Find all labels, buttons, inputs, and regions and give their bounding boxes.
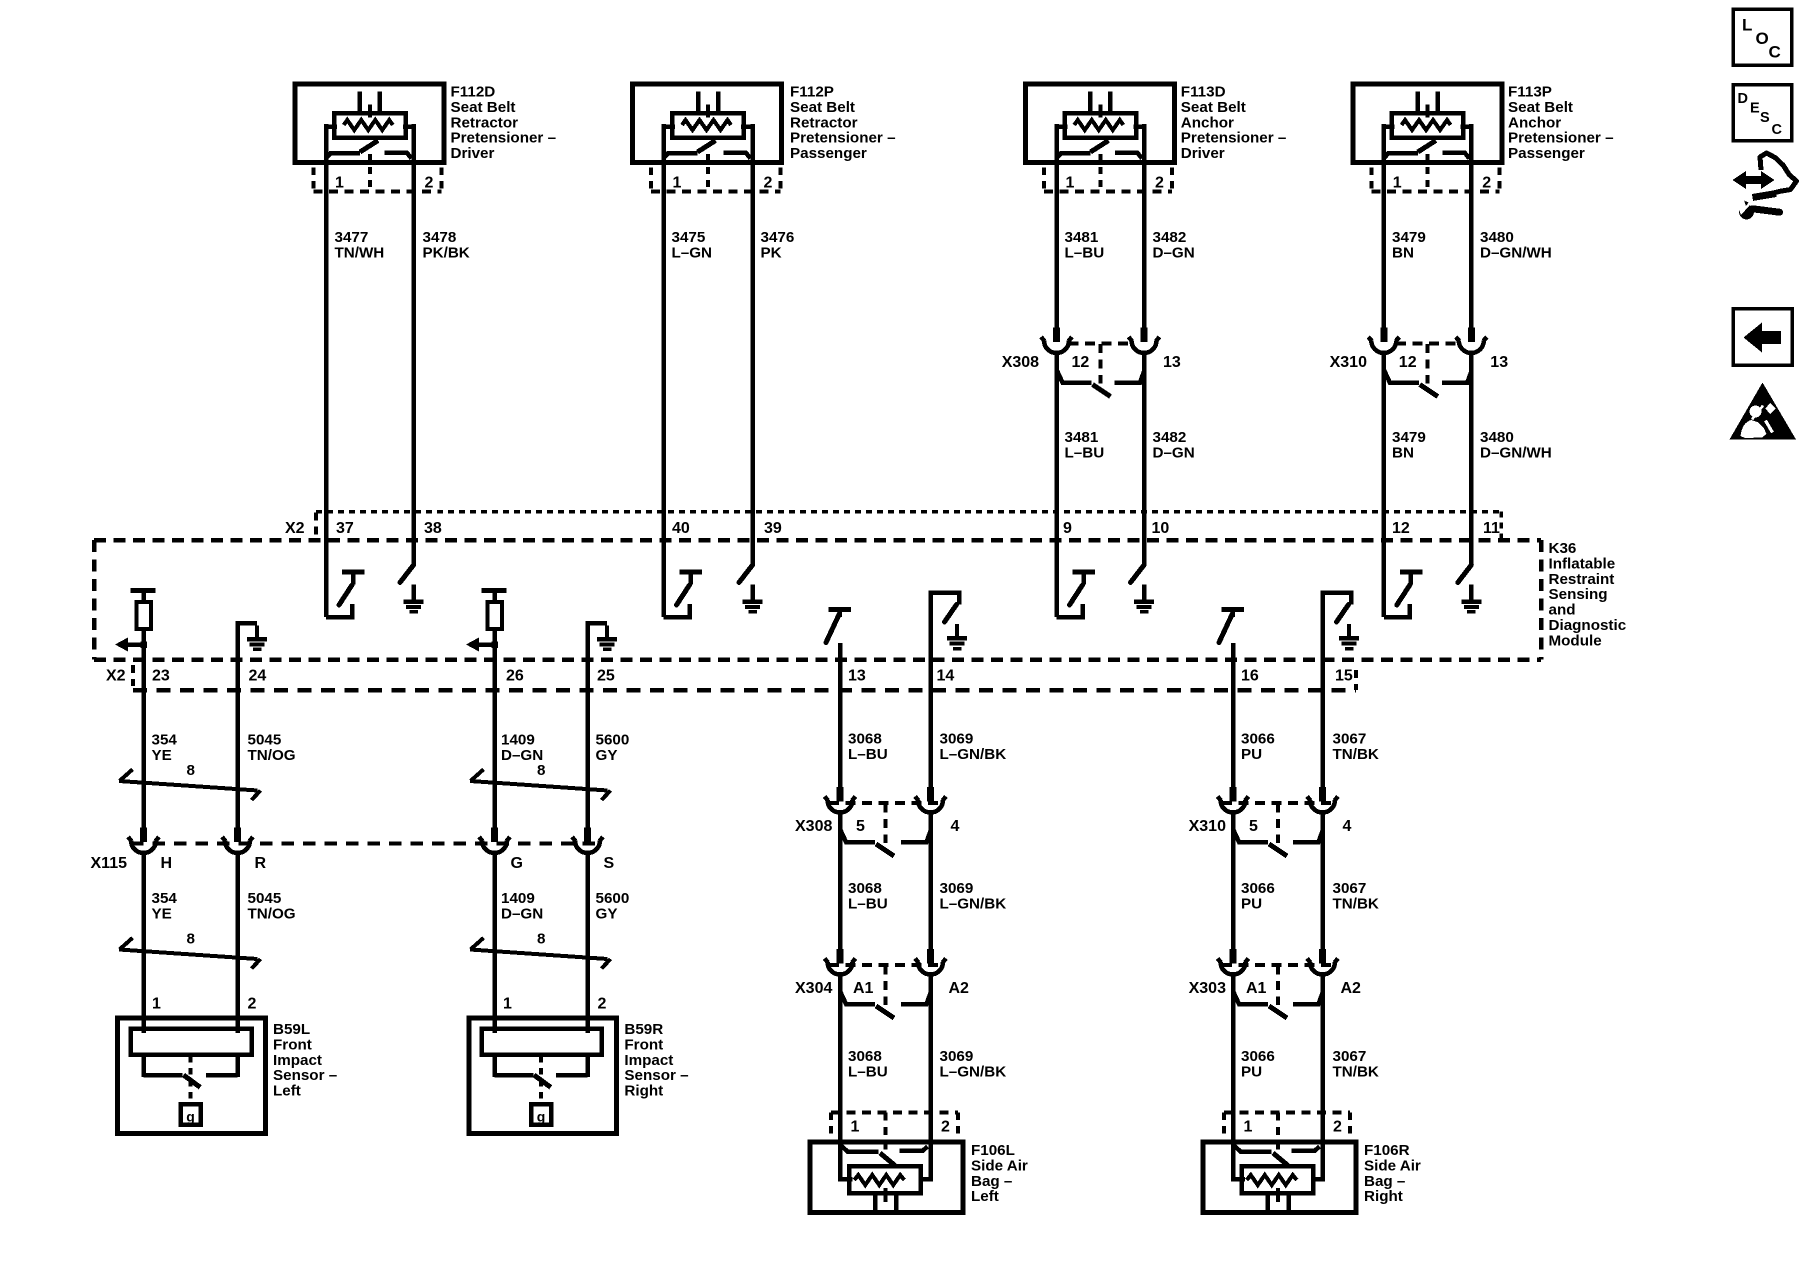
K36 driver pin 37 bbox=[326, 572, 365, 617]
wire 3482 segment F113D-2 to X308-13 bbox=[1142, 163, 1147, 330]
K36 internal ground pin 25 bbox=[588, 623, 618, 659]
svg-text:1: 1 bbox=[335, 175, 344, 192]
wire 3476 label bbox=[761, 229, 795, 261]
pretensioner F113D bbox=[1026, 84, 1175, 193]
F112D pin box bbox=[314, 168, 442, 192]
svg-text:L–BU: L–BU bbox=[848, 746, 888, 763]
svg-text:1: 1 bbox=[152, 996, 161, 1013]
svg-text:2: 2 bbox=[1482, 175, 1491, 192]
svg-text:2: 2 bbox=[248, 996, 257, 1013]
twisted pair marker lower B bbox=[470, 938, 611, 969]
pretensioner F113P bbox=[1353, 84, 1502, 193]
svg-text:10: 10 bbox=[1152, 520, 1170, 537]
wire 354 label lower bbox=[152, 890, 178, 922]
wire 3478 label bbox=[423, 229, 470, 261]
wire 3478 segment F112D-2 to K36-38 bbox=[411, 163, 416, 515]
svg-text:BN: BN bbox=[1392, 444, 1414, 461]
svg-text:25: 25 bbox=[597, 668, 615, 685]
svg-text:39: 39 bbox=[764, 520, 782, 537]
svg-text:A1: A1 bbox=[1246, 980, 1267, 997]
wire 5045 label upper bbox=[248, 732, 296, 764]
svg-text:PK/BK: PK/BK bbox=[423, 244, 470, 261]
svg-text:12: 12 bbox=[1072, 354, 1090, 371]
wire 3068 segment X308 to X304-A1 bbox=[838, 812, 843, 949]
connector X308 pins 5-4 bbox=[825, 787, 947, 856]
K36 driver pin 9 bbox=[1057, 572, 1096, 617]
svg-text:D–GN: D–GN bbox=[1153, 244, 1195, 261]
svg-text:S: S bbox=[1760, 110, 1770, 126]
connector X2 bottom line bbox=[133, 665, 1356, 690]
F112P label bbox=[790, 84, 896, 163]
wire 5045 label lower bbox=[248, 890, 296, 922]
svg-text:PU: PU bbox=[1241, 746, 1262, 763]
F106R label bbox=[1364, 1142, 1421, 1205]
K36 ground pin 14 bbox=[931, 593, 968, 660]
svg-text:Driver: Driver bbox=[451, 145, 495, 162]
K36 wire 12 internal bbox=[1382, 512, 1387, 618]
svg-text:TN/BK: TN/BK bbox=[1333, 746, 1379, 763]
wire 3069 label 3 bbox=[940, 1048, 1007, 1080]
wire 3479 segment F113P-1 to X310-12 bbox=[1382, 163, 1387, 330]
svg-text:TN/OG: TN/OG bbox=[248, 747, 296, 764]
svg-text:9: 9 bbox=[1063, 520, 1072, 537]
twisted pair marker upper B bbox=[470, 769, 611, 800]
wire 354 label upper bbox=[152, 732, 178, 764]
svg-text:14: 14 bbox=[937, 668, 955, 685]
wire 3475 label bbox=[672, 229, 713, 261]
wire 5600 label upper bbox=[596, 732, 630, 764]
svg-text:H: H bbox=[161, 855, 173, 872]
icon hand with arrow and wrench bbox=[1733, 153, 1797, 219]
connector X115 line bbox=[131, 842, 599, 846]
icon LOC box bbox=[1733, 9, 1792, 65]
svg-text:2: 2 bbox=[941, 1119, 950, 1136]
F112D label bbox=[451, 84, 557, 163]
svg-text:1: 1 bbox=[503, 996, 512, 1013]
wire 5600 segment X115 to B59R-2 bbox=[585, 853, 590, 1034]
side air bag F106L bbox=[810, 1142, 963, 1213]
wire 5045 segment K36 to X115 bbox=[235, 660, 240, 828]
svg-text:Left: Left bbox=[971, 1188, 999, 1205]
wire 3481 upper label bbox=[1065, 229, 1105, 261]
svg-text:D–GN: D–GN bbox=[1153, 444, 1195, 461]
wire 3066 segment X303 to F106R-1 bbox=[1231, 974, 1236, 1150]
svg-text:1: 1 bbox=[673, 175, 682, 192]
svg-text:PU: PU bbox=[1241, 895, 1262, 912]
svg-text:1: 1 bbox=[1393, 175, 1402, 192]
K36 wire 40 internal bbox=[661, 512, 666, 618]
svg-text:2: 2 bbox=[598, 996, 607, 1013]
K36 label bbox=[1549, 540, 1627, 649]
svg-text:Module: Module bbox=[1549, 632, 1602, 649]
svg-text:D–GN: D–GN bbox=[501, 747, 543, 764]
svg-text:Right: Right bbox=[624, 1083, 663, 1100]
svg-text:13: 13 bbox=[1490, 354, 1508, 371]
svg-text:A2: A2 bbox=[1341, 980, 1362, 997]
svg-text:Driver: Driver bbox=[1181, 145, 1225, 162]
svg-text:TN/WH: TN/WH bbox=[335, 244, 385, 261]
svg-text:GY: GY bbox=[596, 905, 618, 922]
side air bag F106R bbox=[1203, 1142, 1356, 1213]
wire 354 segment X115 to B59L-1 bbox=[141, 853, 146, 1034]
svg-text:TN/BK: TN/BK bbox=[1333, 1063, 1379, 1080]
wire 3482 lower label bbox=[1153, 429, 1195, 461]
icon back arrow box bbox=[1733, 309, 1792, 366]
wire 5600 label lower bbox=[596, 890, 630, 922]
svg-text:37: 37 bbox=[336, 520, 354, 537]
wire 3066 segment X310 to X303-A1 bbox=[1231, 812, 1236, 949]
K36 ground pin 39 bbox=[739, 565, 763, 612]
wire 3479 upper label bbox=[1392, 229, 1426, 261]
wire 3480 segment F113P-2 to X310-13 bbox=[1469, 163, 1474, 330]
svg-text:4: 4 bbox=[1343, 818, 1352, 835]
X115 terminal G bbox=[479, 828, 510, 854]
F112P pin box bbox=[651, 168, 781, 192]
svg-text:A1: A1 bbox=[853, 980, 874, 997]
svg-text:2: 2 bbox=[425, 175, 434, 192]
F113P label bbox=[1508, 84, 1614, 163]
svg-text:A2: A2 bbox=[949, 980, 970, 997]
svg-text:13: 13 bbox=[1163, 354, 1181, 371]
svg-text:Passenger: Passenger bbox=[1508, 145, 1585, 162]
K36 driver pin 13 bbox=[826, 610, 851, 660]
svg-text:5: 5 bbox=[856, 818, 865, 835]
wire 3477 label bbox=[335, 229, 385, 261]
wire 1409 label lower bbox=[501, 890, 543, 922]
wire 3481 lower label bbox=[1065, 429, 1105, 461]
svg-text:S: S bbox=[604, 855, 615, 872]
svg-text:Passenger: Passenger bbox=[790, 145, 867, 162]
wire 3067 label 1 bbox=[1333, 731, 1379, 763]
svg-text:2: 2 bbox=[1155, 175, 1164, 192]
K36 driver pin 40 bbox=[664, 572, 703, 617]
wire 3479 segment X310-12 to K36-12 bbox=[1382, 353, 1387, 515]
svg-text:1: 1 bbox=[1066, 175, 1075, 192]
svg-text:2: 2 bbox=[764, 175, 773, 192]
wire 3066 label 1 bbox=[1241, 731, 1275, 763]
wire 3066 segment K36 to X310-5 bbox=[1231, 660, 1236, 788]
svg-text:R: R bbox=[255, 855, 267, 872]
twisted pair marker upper A bbox=[119, 769, 261, 800]
svg-text:X303: X303 bbox=[1189, 980, 1226, 997]
X115 terminal H bbox=[128, 828, 159, 854]
F106L label bbox=[971, 1142, 1028, 1205]
svg-text:38: 38 bbox=[424, 520, 442, 537]
wire 3068 label 3 bbox=[848, 1048, 888, 1080]
svg-text:PK: PK bbox=[761, 244, 782, 261]
wire 3482 segment X308-13 to K36-10 bbox=[1142, 353, 1147, 515]
svg-text:GY: GY bbox=[596, 747, 618, 764]
svg-text:TN/OG: TN/OG bbox=[248, 905, 296, 922]
svg-text:D–GN/WH: D–GN/WH bbox=[1480, 444, 1552, 461]
svg-text:X308: X308 bbox=[1002, 354, 1039, 371]
svg-text:C: C bbox=[1769, 43, 1781, 62]
connector X310 pins 12-13 bbox=[1368, 328, 1487, 397]
svg-text:8: 8 bbox=[537, 931, 545, 948]
module K36 dashed box bbox=[94, 540, 1541, 660]
svg-text:O: O bbox=[1756, 29, 1769, 48]
pretensioner F112D bbox=[295, 84, 444, 193]
svg-text:Right: Right bbox=[1364, 1188, 1403, 1205]
svg-text:L–GN: L–GN bbox=[672, 244, 713, 261]
connector X2 top line bbox=[316, 512, 1501, 539]
K36 driver pin 16 bbox=[1219, 610, 1244, 660]
svg-text:24: 24 bbox=[249, 668, 267, 685]
svg-text:X308: X308 bbox=[795, 818, 832, 835]
wire 3066 label 2 bbox=[1241, 880, 1275, 912]
K36 wire 37 internal bbox=[324, 512, 329, 618]
wire 3066 label 3 bbox=[1241, 1048, 1275, 1080]
wire 1409 label upper bbox=[501, 732, 543, 764]
svg-text:12: 12 bbox=[1399, 354, 1417, 371]
K36 wire 38 internal bbox=[411, 512, 416, 567]
wire 3482 upper label bbox=[1153, 229, 1195, 261]
K36 driver pin 12 bbox=[1384, 572, 1423, 617]
svg-text:D–GN/WH: D–GN/WH bbox=[1480, 244, 1552, 261]
svg-text:D: D bbox=[1738, 91, 1748, 107]
svg-text:4: 4 bbox=[951, 818, 960, 835]
wire 3067 segment K36 to X310-4 bbox=[1320, 660, 1325, 788]
wire 3067 label 3 bbox=[1333, 1048, 1379, 1080]
svg-text:g: g bbox=[186, 1109, 195, 1125]
K36 ground pin 11 bbox=[1458, 565, 1482, 612]
svg-text:Left: Left bbox=[273, 1083, 301, 1100]
impact sensor B59L bbox=[118, 1018, 266, 1133]
svg-text:X2: X2 bbox=[285, 520, 305, 537]
svg-text:C: C bbox=[1772, 122, 1783, 138]
svg-text:40: 40 bbox=[672, 520, 690, 537]
svg-text:1: 1 bbox=[1244, 1119, 1253, 1136]
svg-text:X310: X310 bbox=[1189, 818, 1226, 835]
svg-text:X115: X115 bbox=[91, 855, 128, 872]
svg-text:TN/BK: TN/BK bbox=[1333, 895, 1379, 912]
B59L label bbox=[273, 1021, 337, 1100]
K36 wire 39 internal bbox=[750, 512, 755, 567]
K36 internal ground pin 24 bbox=[238, 623, 268, 659]
wire 1409 segment X115 to B59R-1 bbox=[492, 853, 497, 1034]
impact sensor B59R bbox=[469, 1018, 617, 1133]
svg-text:15: 15 bbox=[1335, 668, 1353, 685]
svg-text:L–BU: L–BU bbox=[848, 895, 888, 912]
wire 3069 segment K36 to X308-4 bbox=[928, 660, 933, 788]
svg-text:L–BU: L–BU bbox=[848, 1063, 888, 1080]
svg-text:X310: X310 bbox=[1330, 354, 1367, 371]
F106L pin box bbox=[831, 1113, 958, 1155]
wire 1409 segment K36 to X115 bbox=[492, 660, 497, 828]
wire 3067 segment X310 to X303-A2 bbox=[1320, 812, 1325, 949]
svg-text:2: 2 bbox=[1333, 1119, 1342, 1136]
wire 3069 label 1 bbox=[940, 731, 1007, 763]
svg-text:BN: BN bbox=[1392, 244, 1414, 261]
wire 3480 lower label bbox=[1480, 429, 1552, 461]
svg-text:YE: YE bbox=[152, 747, 172, 764]
icon DESC box bbox=[1733, 85, 1792, 141]
twisted pair marker lower A bbox=[119, 938, 261, 969]
connector X304 pins A1-A2 bbox=[825, 949, 947, 1018]
wire 3069 segment X304 to F106L-2 bbox=[928, 974, 933, 1150]
svg-text:X304: X304 bbox=[795, 980, 832, 997]
F113P pin box bbox=[1371, 168, 1499, 192]
connector X303 pins A1-A2 bbox=[1218, 949, 1339, 1018]
svg-text:5: 5 bbox=[1249, 818, 1258, 835]
wire 3067 segment X303 to F106R-2 bbox=[1320, 974, 1325, 1150]
K36 ground pin 15 bbox=[1323, 593, 1360, 660]
wire 3481 segment X308-12 to K36-9 bbox=[1054, 353, 1059, 515]
svg-text:g: g bbox=[537, 1109, 546, 1125]
svg-text:L–GN/BK: L–GN/BK bbox=[940, 746, 1007, 763]
X115 terminal S bbox=[572, 828, 603, 854]
svg-text:D–GN: D–GN bbox=[501, 905, 543, 922]
wire 5045 segment X115 to B59L-2 bbox=[235, 853, 240, 1034]
svg-text:PU: PU bbox=[1241, 1063, 1262, 1080]
wire 3481 segment F113D-1 to X308-12 bbox=[1054, 163, 1059, 330]
K36 wire 10 internal bbox=[1142, 512, 1147, 567]
svg-text:13: 13 bbox=[848, 668, 866, 685]
connector X310 pins 5-4 bbox=[1218, 787, 1339, 856]
svg-text:E: E bbox=[1750, 101, 1760, 117]
X115 terminal R bbox=[222, 828, 253, 854]
K36 wire 9 internal bbox=[1054, 512, 1059, 618]
svg-text:8: 8 bbox=[537, 762, 545, 779]
svg-text:L–GN/BK: L–GN/BK bbox=[940, 1063, 1007, 1080]
wire 3069 label 2 bbox=[940, 880, 1007, 912]
wire 3068 label 2 bbox=[848, 880, 888, 912]
wire 3476 segment F112P-2 to K36-39 bbox=[750, 163, 755, 515]
wire 3069 segment X308 to X304-A2 bbox=[928, 812, 933, 949]
svg-text:8: 8 bbox=[187, 762, 195, 779]
wire 3068 label 1 bbox=[848, 731, 888, 763]
connector X308 pins 12-13 bbox=[1041, 328, 1160, 397]
K36 ground pin 10 bbox=[1131, 565, 1155, 612]
svg-text:L–BU: L–BU bbox=[1065, 444, 1105, 461]
svg-text:L–BU: L–BU bbox=[1065, 244, 1105, 261]
svg-text:YE: YE bbox=[152, 905, 172, 922]
svg-text:16: 16 bbox=[1241, 668, 1259, 685]
K36 sensor feed pin 23 bbox=[115, 591, 156, 660]
wire 3068 segment K36 to X308-5 bbox=[838, 660, 843, 788]
wire 3067 label 2 bbox=[1333, 880, 1379, 912]
K36 sensor feed pin 26 bbox=[466, 591, 507, 660]
svg-text:X2: X2 bbox=[106, 668, 126, 685]
B59R label bbox=[624, 1021, 688, 1100]
wire 3475 segment F112P-1 to K36-40 bbox=[661, 163, 666, 515]
K36 wire 11 internal bbox=[1469, 512, 1474, 567]
svg-text:L–GN/BK: L–GN/BK bbox=[940, 895, 1007, 912]
wire 3480 upper label bbox=[1480, 229, 1552, 261]
svg-text:G: G bbox=[511, 855, 523, 872]
svg-text:26: 26 bbox=[506, 668, 524, 685]
svg-text:1: 1 bbox=[851, 1119, 860, 1136]
icon SIR caution triangle bbox=[1730, 383, 1797, 440]
svg-text:12: 12 bbox=[1392, 520, 1410, 537]
F113D pin box bbox=[1044, 168, 1172, 192]
svg-text:8: 8 bbox=[187, 931, 195, 948]
svg-text:11: 11 bbox=[1483, 520, 1500, 537]
wire 3480 segment X310-13 to K36-11 bbox=[1469, 353, 1474, 515]
wire 3479 lower label bbox=[1392, 429, 1426, 461]
F113D label bbox=[1181, 84, 1287, 163]
F106R pin box bbox=[1224, 1113, 1350, 1155]
wire 3477 segment F112D-1 to K36-37 bbox=[324, 163, 329, 515]
wire 3068 segment X304 to F106L-1 bbox=[838, 974, 843, 1150]
svg-text:23: 23 bbox=[152, 668, 170, 685]
wire 5600 segment K36 to X115 bbox=[585, 660, 590, 828]
wire 354 segment K36 to X115 bbox=[141, 660, 146, 828]
svg-text:L: L bbox=[1742, 16, 1752, 35]
pretensioner F112P bbox=[633, 84, 782, 193]
K36 ground pin 38 bbox=[400, 565, 424, 612]
